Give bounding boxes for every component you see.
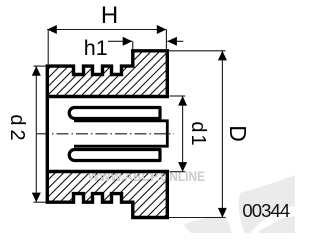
dimension h1: left tail line [108,40,132,42]
dimension d2: bottom arrow [32,193,41,203]
dimension D: line [221,51,223,218]
dimension H: right arrow [157,25,167,34]
dimension d2: extension line bottom [34,201,47,203]
dimension d1: bottom arrow [178,162,187,172]
svg-text:D: D [225,125,251,142]
dimension D: extension line bottom [169,217,226,219]
dimension h1: right tail line [167,40,183,42]
centerline (dash-dot axis) [37,133,174,135]
dimension d1: extension line bottom [170,171,186,173]
dimension D: bottom arrow [218,208,227,218]
dimension H: left arrow [47,25,57,34]
dimension d1: extension line top [170,95,186,97]
dimension H: extension line left [47,30,49,65]
dimension d2: top arrow [32,66,41,76]
slot 1 (upper thread groove) [69,108,160,119]
dimension H: extension line right [165,30,167,49]
dimension D: top arrow [218,51,227,61]
dimension d2: line [35,66,37,202]
dimension d2: extension line top [34,65,47,67]
watermark swoosh petal A (bottom, left of 00344) [183,216,232,233]
slot 2 (lower thread groove) [69,150,160,161]
part outline (section profile) [47,51,167,218]
dimension D: extension line top [169,50,226,52]
svg-text:00344: 00344 [242,200,290,221]
center tooth outline [74,121,167,146]
svg-text:H: H [101,2,118,29]
dimension h1: extension line flange left [132,41,134,49]
dimension h1: right arrow (pointing left) [167,37,177,46]
watermark white swoosh cut [250,206,295,233]
dimension h1: left arrow (pointing right) [123,37,133,46]
watermark swoosh main right lobe [239,175,295,233]
svg-text:d1: d1 [187,121,209,147]
dimension H: line [47,29,166,31]
dimension d1: top arrow [178,96,187,106]
svg-text:h1: h1 [84,36,108,60]
svg-text:d2: d2 [6,114,28,144]
dimension d1: line [182,96,184,172]
